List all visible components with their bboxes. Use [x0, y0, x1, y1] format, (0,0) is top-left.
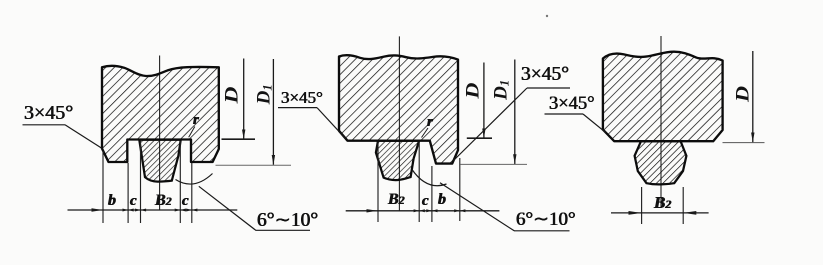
svg-text:D1: D1	[490, 80, 511, 101]
svg-text:D: D	[222, 86, 243, 105]
svg-text:D: D	[733, 86, 754, 103]
svg-text:D1: D1	[254, 84, 275, 105]
svg-text:D: D	[462, 82, 483, 99]
